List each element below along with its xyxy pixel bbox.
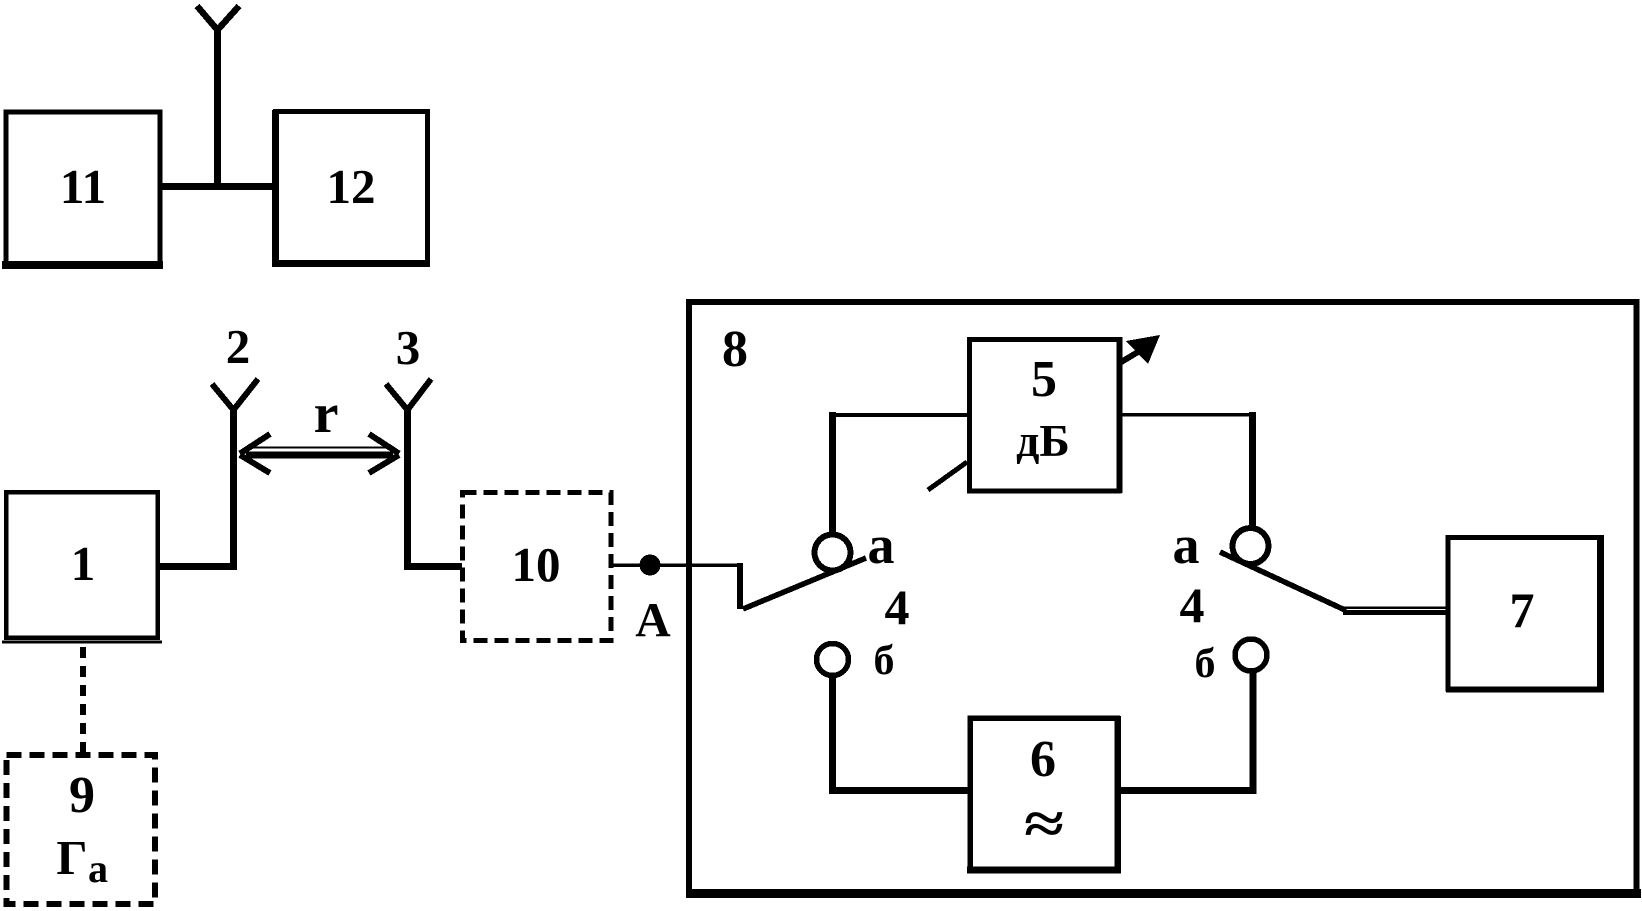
wire block10 to block8 <box>613 563 740 567</box>
dashed wire block 1 to block 9 <box>80 647 86 753</box>
switch 4 (right) contact b <box>1235 639 1267 671</box>
svg-text:9: 9 <box>69 767 95 824</box>
variable-attenuator arrow through block 5 <box>928 335 1160 490</box>
switch 4 (left) lever <box>743 558 866 609</box>
switch 4 (left) contact a <box>815 535 851 571</box>
wire block5 to right switch <box>1119 413 1253 417</box>
svg-text:1: 1 <box>71 536 96 591</box>
block 12 <box>272 110 430 266</box>
block 1 <box>2 492 162 642</box>
switch 4 (left) contact b <box>817 644 849 676</box>
node A <box>640 555 661 576</box>
svg-text:дБ: дБ <box>1016 415 1070 466</box>
svg-text:а: а <box>88 846 108 891</box>
antenna 2 <box>212 379 258 570</box>
svg-text:A: A <box>635 592 671 647</box>
wire block1 to antenna2 <box>158 563 237 570</box>
switch 4 (right) lever <box>1220 552 1346 611</box>
svg-text:Г: Г <box>56 830 87 885</box>
svg-text:11: 11 <box>60 159 106 214</box>
wire block11 to block12 <box>159 183 277 190</box>
antenna of blocks 11/12 <box>197 6 239 190</box>
block 8 (outer enclosure) <box>686 302 1641 894</box>
wire rail to block 6 (left) <box>829 787 970 794</box>
svg-text:4: 4 <box>1180 577 1205 633</box>
block 11 <box>2 112 163 265</box>
block 9 (dashed, generator Ga) <box>7 755 156 904</box>
svg-text:8: 8 <box>722 321 748 378</box>
block 5 (attenuator) <box>970 337 1120 493</box>
svg-text:б: б <box>874 638 895 684</box>
svg-text:7: 7 <box>1510 582 1535 638</box>
wire contact b (left) down to generator rail <box>829 676 836 791</box>
svg-text:≈: ≈ <box>1024 791 1064 856</box>
double-line wire lever to block 7 <box>1343 608 1448 613</box>
distance arrow r <box>240 434 399 473</box>
antenna 3 <box>386 379 431 570</box>
wire to block 5 left <box>829 413 969 417</box>
svg-text:а: а <box>1173 515 1200 575</box>
svg-text:6: 6 <box>1030 731 1056 788</box>
svg-text:10: 10 <box>512 537 561 592</box>
block 7 <box>1446 535 1604 692</box>
svg-text:4: 4 <box>885 579 910 635</box>
wire antenna3 to block10 <box>404 563 462 570</box>
svg-text:r: r <box>314 383 339 445</box>
block 6 (generator) <box>967 716 1121 872</box>
switch 4 (right) contact a <box>1233 528 1269 564</box>
wire contact a (left) up to attenuator level <box>829 412 836 532</box>
block 10 (dashed) <box>463 493 612 641</box>
svg-text:2: 2 <box>226 319 251 374</box>
svg-text:5: 5 <box>1031 351 1057 408</box>
svg-text:а: а <box>868 515 895 575</box>
svg-text:3: 3 <box>396 320 421 375</box>
wire block 6 to contact b (right) <box>1117 787 1256 794</box>
wire hook into switch 4 (left) <box>737 563 743 609</box>
svg-text:б: б <box>1195 641 1216 687</box>
svg-text:12: 12 <box>327 159 376 214</box>
